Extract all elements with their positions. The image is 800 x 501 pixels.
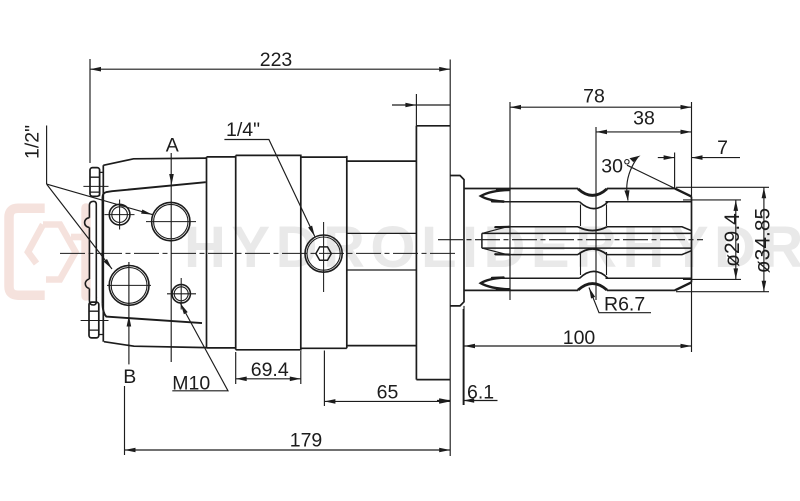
shaft core band [482, 226, 692, 255]
svg-text:78: 78 [583, 86, 605, 108]
M10 threaded hole [167, 278, 196, 310]
radius R6.7 label [589, 288, 651, 316]
svg-text:69.4: 69.4 [251, 359, 289, 381]
dimension 6.1 [437, 309, 498, 405]
dimension 100 [464, 306, 692, 405]
svg-text:R6.7: R6.7 [604, 294, 645, 316]
dimension 30 degrees [601, 156, 691, 202]
end cap strip [85, 201, 97, 305]
shaft root lines [495, 202, 692, 278]
svg-text:6.1: 6.1 [467, 382, 494, 404]
motor housing block1 outline [103, 157, 206, 348]
svg-text:ø29.4: ø29.4 [721, 213, 744, 267]
bottom bolt hex head [89, 302, 104, 338]
shaft centerline [438, 239, 703, 241]
dimension 69.4 [236, 351, 301, 384]
spline end chamfer spear bottom [481, 278, 510, 290]
label 1/4 inch with leader [224, 119, 314, 237]
svg-text:65: 65 [377, 382, 399, 404]
block4 rear body [347, 161, 417, 346]
top bolt M? hex head [90, 168, 103, 197]
dimension 179 [125, 386, 451, 455]
watermark HYDROLIDER text [184, 215, 800, 280]
block2 gerotor housing [236, 155, 301, 349]
shaft end face [691, 197, 693, 283]
svg-text:30°: 30° [601, 156, 631, 178]
flange plate [416, 126, 450, 380]
watermark logo [9, 208, 86, 296]
svg-text:A: A [166, 135, 179, 157]
dimension dia 34.85 [676, 187, 775, 291]
port B circle [107, 266, 151, 306]
svg-text:B: B [123, 366, 136, 388]
body centerline [60, 252, 455, 254]
svg-text:7: 7 [717, 137, 728, 159]
shaft OD lines [464, 189, 675, 291]
flange face arrow dim [392, 94, 450, 126]
svg-text:100: 100 [563, 327, 596, 349]
dimension 78 [510, 86, 692, 353]
svg-text:179: 179 [290, 430, 323, 452]
bottom bolt axis [81, 320, 109, 322]
label M10 with leader [172, 304, 228, 395]
1/4 inch port circle with hex socket [305, 222, 342, 292]
port face plate [103, 182, 206, 323]
label 1/2 inch with two leaders [22, 125, 153, 269]
port A circle [146, 202, 196, 240]
spline end chamfer spear top [481, 190, 510, 202]
dimension 65 [324, 351, 450, 407]
dimension 223 [90, 49, 450, 456]
svg-text:1/2": 1/2" [22, 125, 44, 159]
thin plate between block1 and block2 [207, 155, 236, 349]
svg-text:ø34.85: ø34.85 [752, 208, 775, 273]
dimension 38 [596, 108, 692, 301]
circlip groove arcs [578, 189, 608, 290]
shaft end chamfer [675, 189, 692, 291]
gauge port circle [105, 200, 135, 230]
label A with arrow [166, 135, 179, 363]
svg-text:223: 223 [260, 49, 293, 71]
label B with arrow [123, 262, 136, 388]
block3 [301, 156, 347, 348]
svg-text:1/4": 1/4" [226, 119, 260, 141]
pilot hub [450, 176, 464, 306]
dimension 7 [658, 137, 740, 189]
core band chamfer marks [495, 227, 509, 255]
svg-text:38: 38 [633, 108, 655, 130]
dimension dia 29.4 [683, 200, 744, 280]
top bolt axis [83, 185, 108, 187]
